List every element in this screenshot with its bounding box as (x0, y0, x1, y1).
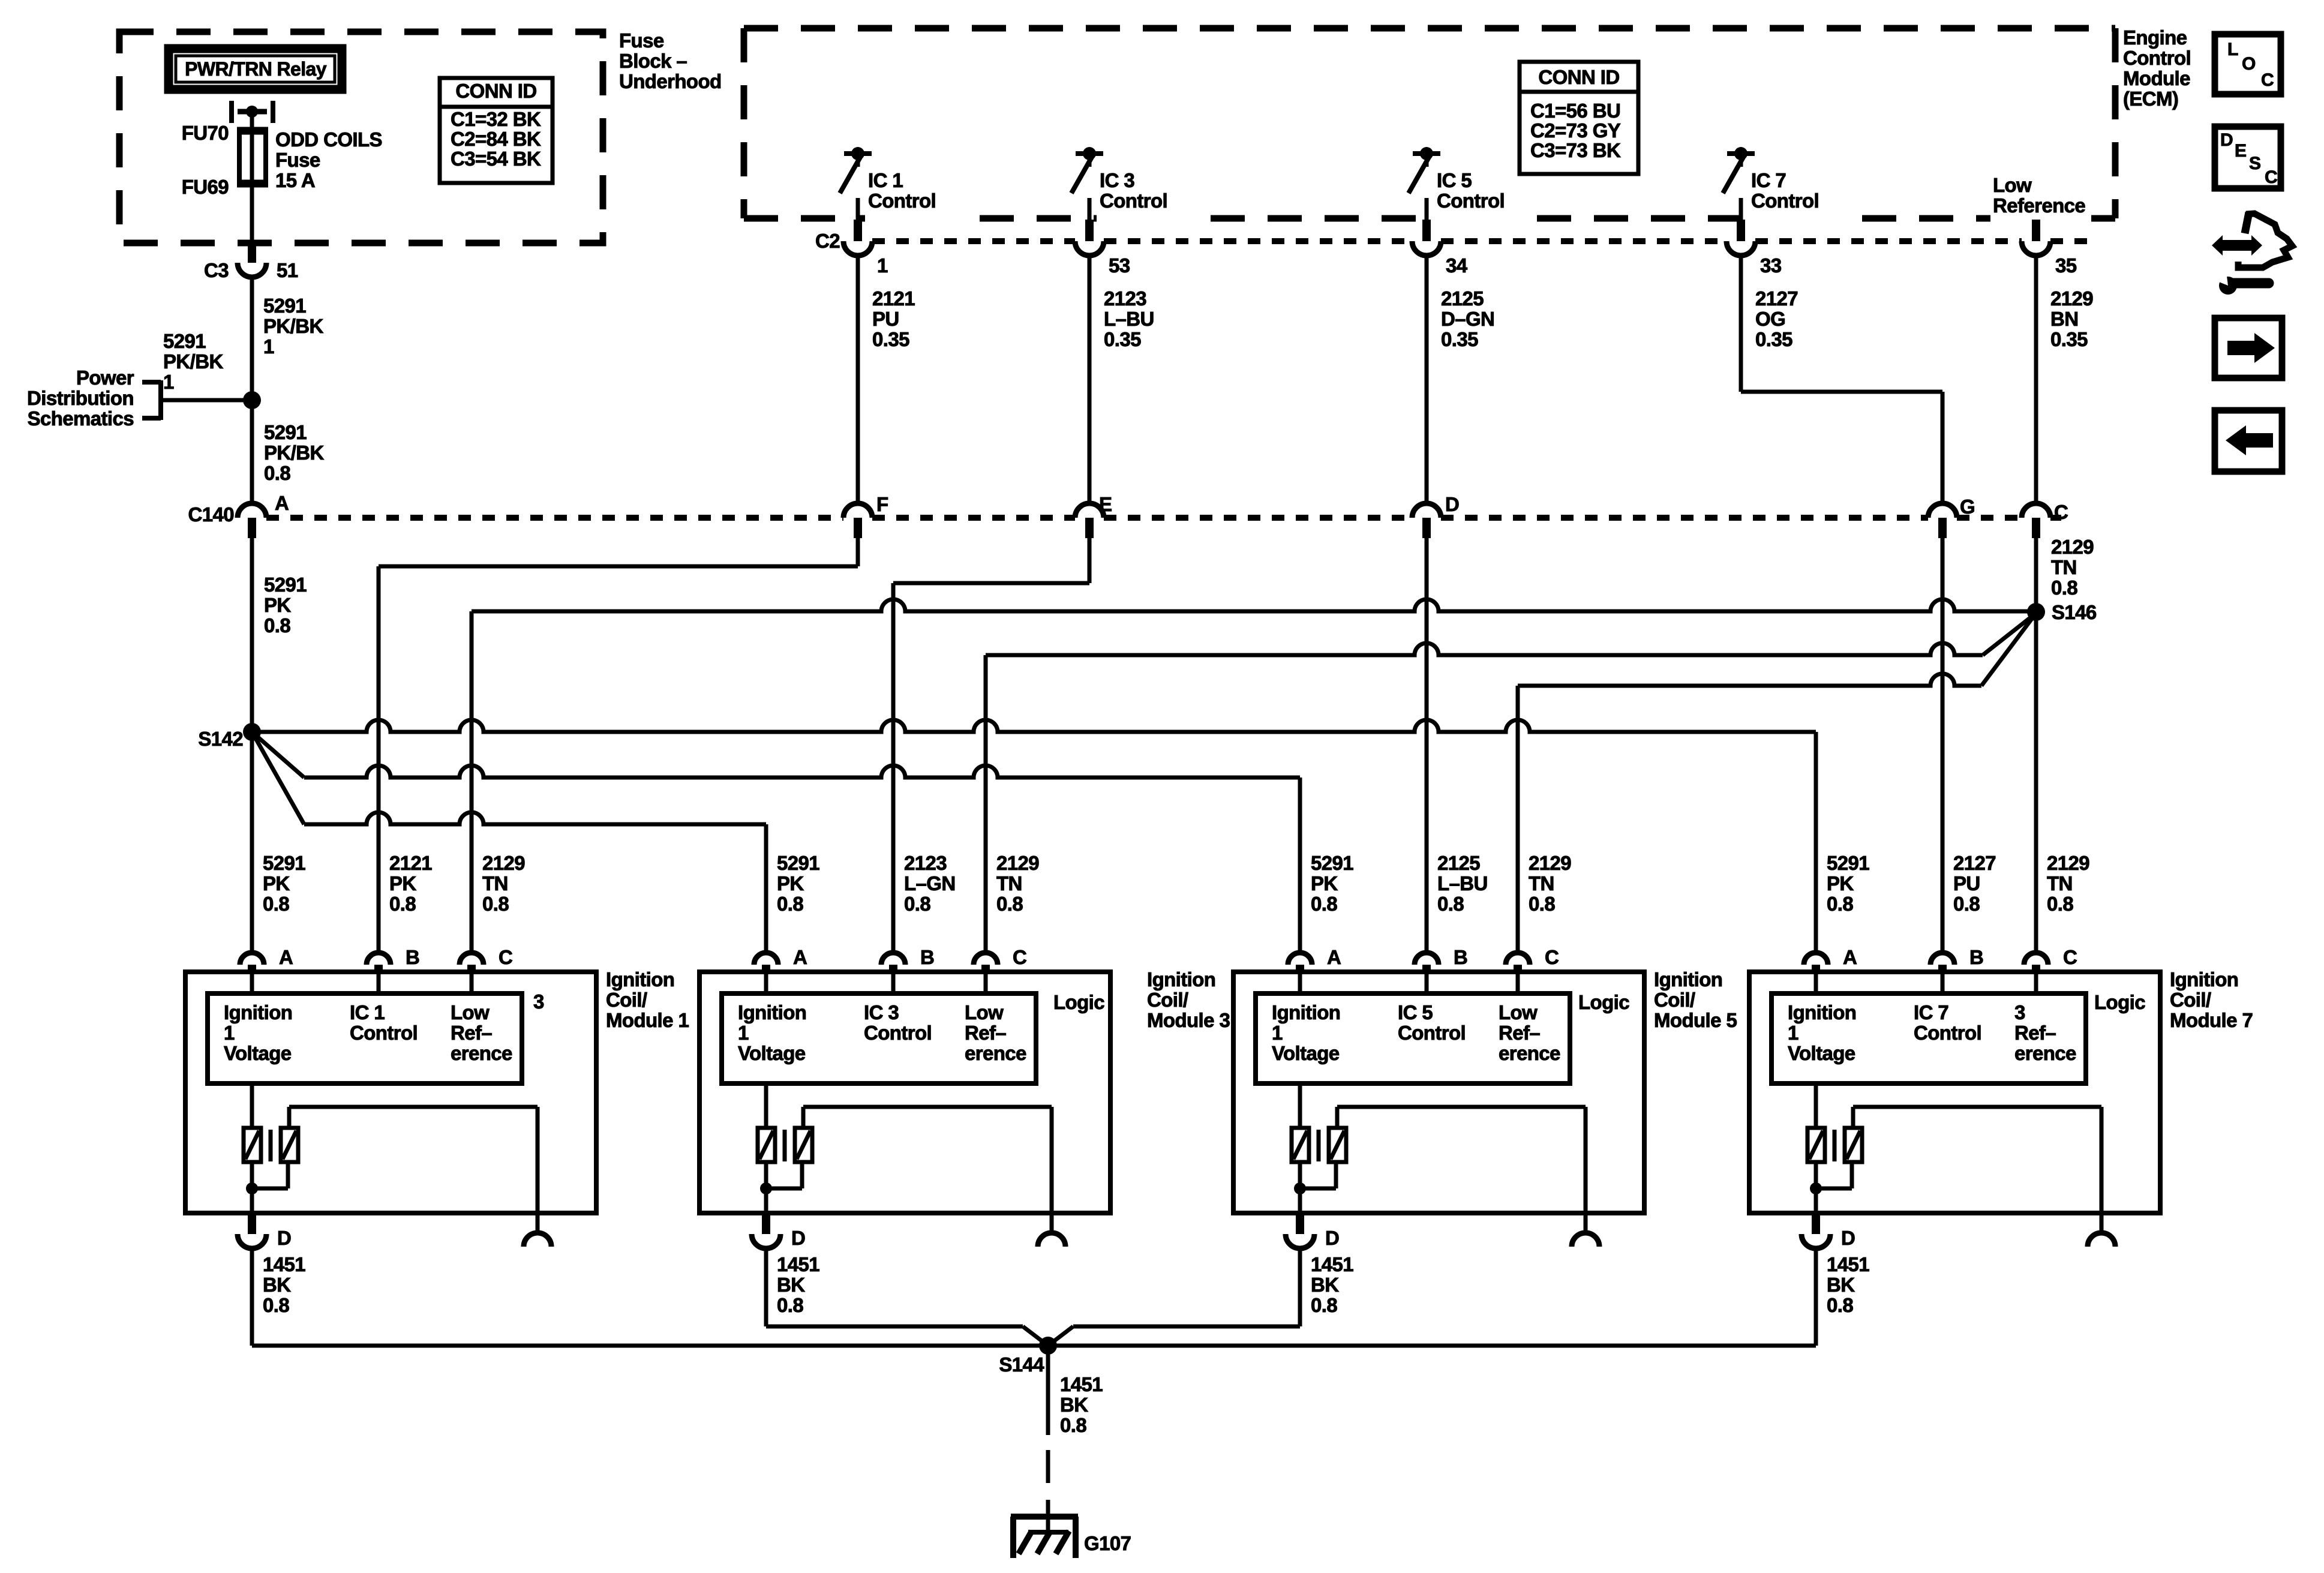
svg-text:E: E (2235, 141, 2246, 161)
svg-text:1451: 1451 (1311, 1253, 1353, 1275)
svg-text:0.8: 0.8 (264, 462, 290, 484)
svg-text:BK: BK (1827, 1274, 1855, 1296)
svg-text:C: C (2265, 167, 2277, 187)
svg-text:Control: Control (1751, 190, 1819, 212)
svg-text:Module 3: Module 3 (1147, 1009, 1230, 1031)
svg-text:Logic: Logic (2094, 991, 2145, 1013)
svg-text:BK: BK (777, 1274, 805, 1296)
svg-text:D: D (791, 1227, 805, 1249)
svg-text:C2=84 BK: C2=84 BK (451, 128, 541, 150)
svg-text:Control: Control (1398, 1022, 1466, 1044)
svg-text:C2: C2 (815, 230, 840, 252)
svg-text:2129: 2129 (2051, 536, 2094, 558)
svg-text:2125: 2125 (1437, 852, 1480, 874)
svg-text:IC 7: IC 7 (1914, 1001, 1948, 1023)
svg-text:Block –: Block – (619, 50, 687, 72)
svg-text:C1=32 BK: C1=32 BK (451, 108, 541, 130)
svg-text:D: D (1445, 493, 1459, 515)
svg-text:PK: PK (263, 872, 290, 894)
svg-text:A: A (1327, 946, 1341, 968)
svg-text:PK: PK (264, 594, 291, 616)
svg-text:PU: PU (872, 308, 899, 330)
svg-text:Ref–: Ref– (1499, 1022, 1540, 1044)
svg-text:Control: Control (2123, 47, 2191, 69)
svg-text:erence: erence (451, 1042, 512, 1064)
svg-text:Ignition: Ignition (1788, 1001, 1856, 1023)
svg-text:5291: 5291 (263, 852, 305, 874)
svg-text:2123: 2123 (1104, 287, 1146, 310)
svg-text:Logic: Logic (1578, 991, 1629, 1013)
svg-text:0.8: 0.8 (263, 893, 289, 915)
svg-text:3: 3 (533, 990, 544, 1013)
svg-text:TN: TN (996, 872, 1022, 894)
svg-text:0.8: 0.8 (1827, 893, 1853, 915)
svg-text:D: D (1841, 1227, 1855, 1249)
svg-text:0.8: 0.8 (264, 614, 290, 637)
svg-text:0.35: 0.35 (1104, 328, 1141, 350)
svg-text:Coil/: Coil/ (1147, 989, 1188, 1011)
svg-text:C3=54 BK: C3=54 BK (451, 148, 541, 170)
svg-text:Underhood: Underhood (619, 70, 722, 92)
svg-text:1: 1 (163, 371, 174, 393)
svg-text:D–GN: D–GN (1441, 308, 1494, 330)
svg-text:Ref–: Ref– (2014, 1022, 2056, 1044)
svg-text:0.8: 0.8 (1060, 1414, 1086, 1436)
svg-text:0.35: 0.35 (2050, 328, 2088, 350)
svg-text:F: F (876, 493, 888, 515)
svg-text:O: O (2242, 54, 2256, 74)
svg-text:L: L (2227, 40, 2238, 59)
svg-text:1: 1 (224, 1022, 235, 1044)
svg-text:A: A (279, 946, 293, 968)
svg-text:(ECM): (ECM) (2123, 88, 2178, 110)
svg-text:erence: erence (2014, 1042, 2076, 1064)
svg-text:2129: 2129 (2047, 852, 2089, 874)
svg-text:1451: 1451 (777, 1253, 819, 1275)
svg-text:Ignition: Ignition (2170, 968, 2238, 990)
svg-text:34: 34 (1446, 254, 1468, 277)
svg-text:2129: 2129 (482, 852, 525, 874)
svg-text:1: 1 (877, 254, 888, 277)
svg-text:Voltage: Voltage (1272, 1042, 1340, 1064)
svg-text:5291: 5291 (1311, 852, 1353, 874)
svg-text:51: 51 (277, 259, 298, 281)
svg-text:BK: BK (263, 1274, 291, 1296)
svg-text:5291: 5291 (1827, 852, 1869, 874)
svg-text:Coil/: Coil/ (2170, 989, 2211, 1011)
svg-text:erence: erence (1499, 1042, 1560, 1064)
svg-text:1: 1 (1272, 1022, 1283, 1044)
svg-text:3: 3 (2014, 1001, 2025, 1023)
svg-text:0.8: 0.8 (263, 1294, 289, 1316)
svg-text:FU69: FU69 (182, 176, 229, 198)
svg-text:C: C (2261, 70, 2274, 90)
svg-text:L–GN: L–GN (904, 872, 956, 894)
svg-text:2127: 2127 (1953, 852, 1996, 874)
svg-text:0.35: 0.35 (872, 328, 909, 350)
svg-text:1: 1 (738, 1022, 749, 1044)
svg-text:2129: 2129 (2050, 287, 2093, 310)
svg-text:PU: PU (1953, 872, 1980, 894)
svg-text:S142: S142 (198, 728, 243, 750)
svg-text:PK: PK (389, 872, 416, 894)
svg-text:IC 5: IC 5 (1437, 169, 1472, 191)
svg-text:Reference: Reference (1993, 194, 2085, 217)
svg-text:C1=56 BU: C1=56 BU (1530, 100, 1620, 122)
svg-text:IC 3: IC 3 (864, 1001, 899, 1023)
svg-text:0.8: 0.8 (996, 893, 1023, 915)
svg-text:S146: S146 (2052, 601, 2097, 623)
svg-text:C: C (1013, 946, 1026, 968)
svg-text:2125: 2125 (1441, 287, 1484, 310)
svg-text:PK: PK (1311, 872, 1338, 894)
svg-text:IC 1: IC 1 (350, 1001, 385, 1023)
svg-text:0.8: 0.8 (1437, 893, 1464, 915)
svg-text:Low: Low (1499, 1001, 1538, 1023)
svg-text:IC 5: IC 5 (1398, 1001, 1433, 1023)
svg-text:Module: Module (2123, 67, 2190, 89)
svg-text:BK: BK (1311, 1274, 1339, 1296)
svg-text:C2=73 GY: C2=73 GY (1530, 119, 1621, 142)
svg-text:Control: Control (1100, 190, 1167, 212)
svg-text:0.8: 0.8 (1953, 893, 1980, 915)
svg-text:5291: 5291 (264, 421, 307, 443)
svg-text:CONN ID: CONN ID (1538, 66, 1619, 88)
svg-text:0.8: 0.8 (1529, 893, 1555, 915)
svg-text:0.8: 0.8 (904, 893, 930, 915)
svg-text:C: C (1545, 946, 1559, 968)
svg-text:0.8: 0.8 (777, 893, 803, 915)
svg-text:B: B (920, 946, 934, 968)
svg-text:PK/BK: PK/BK (163, 350, 223, 373)
svg-text:PWR/TRN Relay: PWR/TRN Relay (185, 58, 327, 80)
svg-text:S: S (2249, 154, 2260, 173)
svg-text:PK/BK: PK/BK (264, 442, 324, 464)
svg-text:Low: Low (1993, 174, 2032, 196)
svg-text:1451: 1451 (263, 1253, 305, 1275)
svg-text:Module 1: Module 1 (606, 1009, 689, 1031)
svg-text:2127: 2127 (1755, 287, 1798, 310)
svg-text:2121: 2121 (389, 852, 432, 874)
svg-text:D: D (2220, 130, 2233, 150)
svg-text:Control: Control (350, 1022, 418, 1044)
svg-text:0.35: 0.35 (1441, 328, 1478, 350)
svg-text:5291: 5291 (264, 574, 307, 596)
svg-text:L–BU: L–BU (1104, 308, 1154, 330)
svg-text:C3=73 BK: C3=73 BK (1530, 139, 1621, 161)
svg-text:Low: Low (965, 1001, 1004, 1023)
svg-text:33: 33 (1760, 254, 1782, 277)
svg-text:Control: Control (864, 1022, 932, 1044)
svg-text:Control: Control (868, 190, 936, 212)
svg-text:G107: G107 (1084, 1532, 1131, 1554)
svg-text:Control: Control (1437, 190, 1505, 212)
svg-text:Fuse: Fuse (275, 149, 320, 171)
svg-text:G: G (1960, 496, 1975, 518)
svg-text:BN: BN (2050, 308, 2078, 330)
svg-text:PK: PK (1827, 872, 1854, 894)
svg-text:BK: BK (1060, 1394, 1088, 1416)
svg-text:Ignition: Ignition (224, 1001, 292, 1023)
svg-text:ODD COILS: ODD COILS (275, 128, 382, 151)
svg-text:IC 1: IC 1 (868, 169, 903, 191)
svg-text:0.8: 0.8 (482, 893, 509, 915)
svg-text:5291: 5291 (163, 330, 206, 352)
svg-text:0.8: 0.8 (777, 1294, 803, 1316)
svg-text:0.8: 0.8 (1827, 1294, 1853, 1316)
svg-text:Coil/: Coil/ (1654, 989, 1695, 1011)
svg-text:Fuse: Fuse (619, 29, 664, 52)
svg-text:0.8: 0.8 (1311, 1294, 1337, 1316)
svg-text:15 A: 15 A (275, 169, 315, 191)
svg-text:A: A (275, 492, 289, 514)
svg-text:Ignition: Ignition (1654, 968, 1722, 990)
svg-text:Engine: Engine (2123, 26, 2187, 49)
svg-text:A: A (793, 946, 807, 968)
svg-text:1451: 1451 (1060, 1373, 1103, 1395)
svg-text:C: C (2063, 946, 2077, 968)
svg-text:TN: TN (2047, 872, 2073, 894)
svg-text:L–BU: L–BU (1437, 872, 1488, 894)
svg-text:Control: Control (1914, 1022, 1981, 1044)
svg-text:B: B (1969, 946, 1983, 968)
svg-text:Ignition: Ignition (1272, 1001, 1340, 1023)
svg-text:B: B (1454, 946, 1467, 968)
svg-text:C: C (2054, 501, 2068, 523)
svg-text:2129: 2129 (996, 852, 1039, 874)
svg-text:IC 7: IC 7 (1751, 169, 1786, 191)
svg-text:IC 3: IC 3 (1100, 169, 1134, 191)
svg-text:Ignition: Ignition (738, 1001, 806, 1023)
svg-text:Ignition: Ignition (1147, 968, 1215, 990)
svg-text:PK/BK: PK/BK (263, 315, 323, 337)
svg-text:Power: Power (76, 367, 134, 389)
svg-text:0.8: 0.8 (389, 893, 416, 915)
svg-text:53: 53 (1109, 254, 1130, 277)
svg-text:1: 1 (1788, 1022, 1798, 1044)
svg-text:2129: 2129 (1529, 852, 1571, 874)
svg-text:2123: 2123 (904, 852, 947, 874)
svg-text:Coil/: Coil/ (606, 989, 647, 1011)
svg-text:5291: 5291 (263, 295, 306, 317)
svg-text:Voltage: Voltage (1788, 1042, 1855, 1064)
svg-text:35: 35 (2055, 254, 2077, 277)
svg-text:A: A (1843, 946, 1857, 968)
svg-text:FU70: FU70 (182, 122, 229, 144)
svg-text:Ref–: Ref– (965, 1022, 1006, 1044)
svg-text:Voltage: Voltage (738, 1042, 806, 1064)
svg-text:C: C (499, 946, 512, 968)
svg-text:Schematics: Schematics (28, 407, 134, 430)
svg-text:TN: TN (482, 872, 508, 894)
svg-text:C140: C140 (188, 503, 235, 526)
svg-text:Ref–: Ref– (451, 1022, 492, 1044)
svg-text:0.35: 0.35 (1755, 328, 1792, 350)
svg-text:C3: C3 (204, 259, 229, 281)
svg-text:Module 7: Module 7 (2170, 1009, 2253, 1031)
svg-text:S144: S144 (999, 1353, 1044, 1376)
svg-text:Low: Low (451, 1001, 490, 1023)
svg-text:TN: TN (2051, 556, 2077, 578)
svg-text:E: E (1099, 493, 1112, 515)
svg-text:PK: PK (777, 872, 804, 894)
svg-text:Module 5: Module 5 (1654, 1009, 1737, 1031)
svg-text:1: 1 (263, 335, 274, 358)
svg-text:D: D (277, 1227, 291, 1249)
svg-text:OG: OG (1755, 308, 1785, 330)
svg-text:TN: TN (1529, 872, 1554, 894)
svg-text:CONN ID: CONN ID (455, 80, 536, 102)
svg-text:erence: erence (965, 1042, 1026, 1064)
svg-text:1451: 1451 (1827, 1253, 1869, 1275)
svg-text:0.8: 0.8 (2047, 893, 2073, 915)
svg-text:Distribution: Distribution (27, 387, 134, 409)
svg-text:B: B (406, 946, 419, 968)
svg-text:Ignition: Ignition (606, 968, 674, 990)
svg-text:2121: 2121 (872, 287, 915, 310)
svg-text:0.8: 0.8 (1311, 893, 1337, 915)
svg-text:Voltage: Voltage (224, 1042, 292, 1064)
svg-text:Logic: Logic (1053, 991, 1104, 1013)
svg-text:D: D (1325, 1227, 1339, 1249)
svg-text:5291: 5291 (777, 852, 819, 874)
svg-text:0.8: 0.8 (2051, 577, 2077, 599)
